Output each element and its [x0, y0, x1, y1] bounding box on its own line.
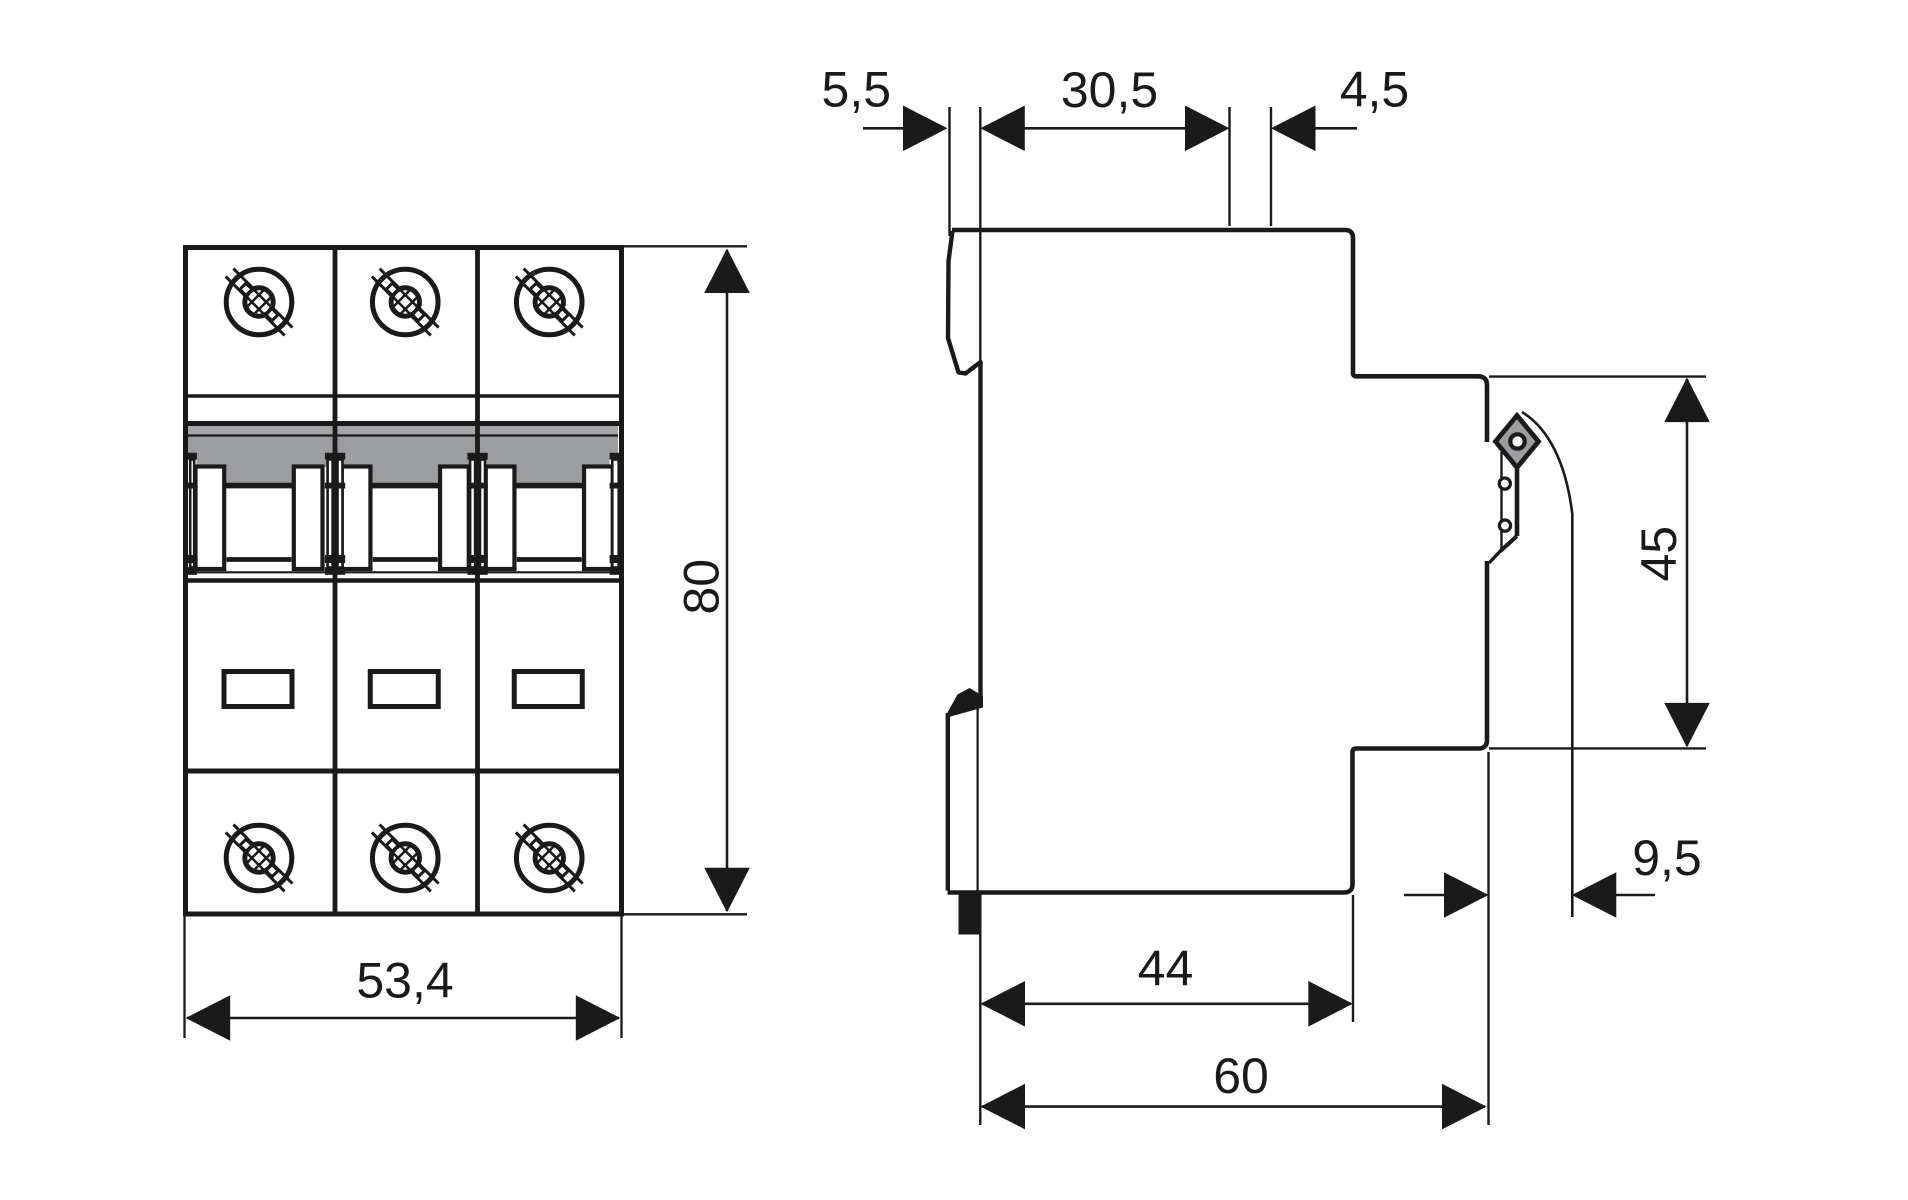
pole 1 label window [224, 672, 292, 707]
side view main outline [948, 230, 1488, 893]
dim 9,5 line/arrows [1404, 894, 1446, 897]
dim 60 line/arrows [982, 1105, 1485, 1108]
dim 53,4 extension lines [183, 916, 185, 1038]
pole 1 actuator area thin bottom line [197, 571, 328, 573]
svg-text:45: 45 [1631, 526, 1687, 582]
inter-module slot at x=472.6 [470, 460, 475, 568]
dim 4,5 line/arrow [1271, 106, 1316, 152]
divider above actuator area [186, 394, 620, 398]
pole 1 toggle handle left tab [196, 467, 225, 570]
dim 44 line/arrows [982, 1002, 1351, 1005]
pole 1 top terminal screw [219, 262, 299, 342]
face patch [1483, 442, 1493, 561]
dim 45 line/arrows [1686, 379, 1689, 746]
pole 3 bottom terminal screw [509, 818, 589, 898]
gray actuator band [188, 426, 618, 436]
sealing eye diamond [1496, 416, 1539, 468]
svg-text:80: 80 [674, 559, 730, 615]
pole 2 label window [370, 672, 438, 707]
dim 5,5 line/arrow [863, 127, 905, 130]
inter-module slot at x=330.1 [328, 460, 333, 568]
pole 3 top terminal screw [509, 262, 589, 342]
svg-text:5,5: 5,5 [822, 62, 892, 118]
dim 30,5 line/arrows [1024, 127, 1187, 130]
pole 1 toggle handle right tab [294, 467, 323, 570]
heavy line below actuator area [184, 578, 622, 583]
pole 2 bottom terminal screw [365, 818, 445, 898]
pole divider lines [333, 249, 338, 912]
heavy line above gray band [184, 421, 622, 426]
pole 2 toggle recess floor line [372, 483, 438, 489]
svg-text:30,5: 30,5 [1061, 62, 1158, 118]
dim 53,4 line and arrows [187, 1017, 619, 1020]
pole 1 toggle recess bottom line [227, 557, 292, 562]
DIN clip body left edge [946, 713, 950, 891]
pole 1 bottom terminal screw [219, 818, 299, 898]
pole 3 actuator area thin bottom line [483, 571, 610, 573]
DIN clip inner line [976, 698, 978, 891]
pole 2 toggle handle left tab [342, 467, 371, 570]
dim 80 line and arrows [726, 250, 729, 911]
pole 3 toggle handle right tab [584, 467, 613, 570]
pole 3 toggle recess bottom line [517, 557, 582, 562]
rear DIN hook profile [948, 231, 981, 696]
pole 3 label window [514, 672, 582, 707]
inter-module slot at x=615.5 [612, 460, 618, 568]
front view outer body outline [186, 248, 622, 915]
pole 1 toggle recess floor line [226, 483, 292, 489]
pole 2 toggle handle right tab [440, 467, 469, 570]
DIN clip head (filled) [947, 688, 983, 718]
divider below label area [184, 769, 622, 774]
svg-text:60: 60 [1213, 1048, 1269, 1104]
thin line in gray band [188, 434, 618, 436]
pole 3 toggle handle left tab [486, 467, 515, 570]
pole 3 toggle recess floor line [516, 483, 582, 489]
svg-text:53,4: 53,4 [356, 953, 453, 1009]
inter-module slot at x=482.5 [480, 460, 485, 568]
pole 2 top terminal screw [365, 262, 445, 342]
inter-module slot at x=340.0 [338, 460, 343, 568]
svg-text:9,5: 9,5 [1632, 830, 1702, 886]
latch bracket [1500, 452, 1502, 550]
pole 2 actuator area thin bottom line [341, 571, 472, 573]
DIN clip pull nub [959, 894, 981, 935]
top dim extension lines [948, 107, 950, 236]
inter-module slot at x=192.2 [190, 460, 194, 568]
svg-text:4,5: 4,5 [1340, 62, 1410, 118]
dim 80 extension lines [624, 245, 747, 247]
bottom dim extension lines [979, 893, 981, 1125]
svg-text:44: 44 [1138, 941, 1194, 997]
toggle tip reference line [1522, 412, 1572, 917]
pole 2 toggle recess bottom line [373, 557, 438, 562]
dim 45 extension lines [1489, 375, 1706, 377]
